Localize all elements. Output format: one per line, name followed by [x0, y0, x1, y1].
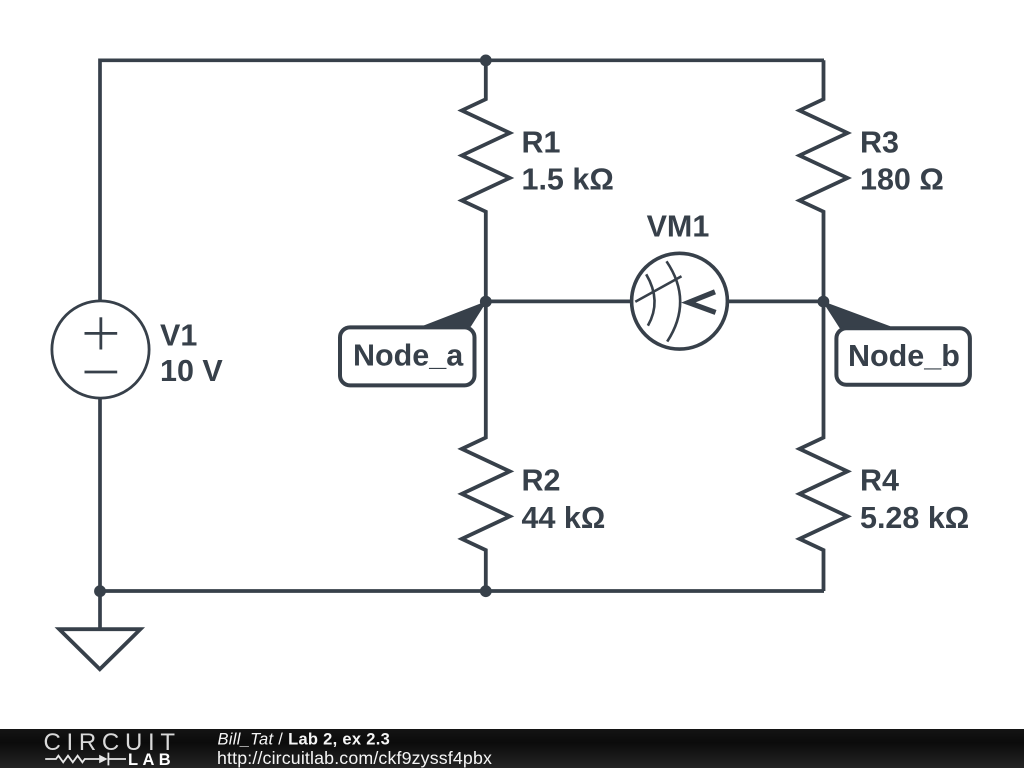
node B callout wedge — [823, 302, 890, 328]
resistor R4 — [800, 301, 848, 591]
svg-text:R3: R3 — [860, 125, 899, 159]
node B callout box — [836, 328, 970, 385]
resistor R2 — [462, 301, 510, 591]
svg-text:R4: R4 — [860, 463, 899, 497]
CircuitLab logo diode triangle — [99, 755, 107, 764]
node A callout box — [340, 327, 475, 385]
ground — [59, 629, 140, 669]
CircuitLab logo resistor-diode glyph — [45, 753, 126, 766]
junction top rail / R1 — [480, 55, 492, 67]
junction bottom rail / ground — [94, 585, 106, 597]
svg-text:5.28 kΩ: 5.28 kΩ — [860, 501, 969, 535]
svg-text:Bill_Tat / Lab 2, ex 2.3: Bill_Tat / Lab 2, ex 2.3 — [218, 730, 391, 748]
svg-text:10 V: 10 V — [160, 354, 223, 388]
wire middle right (VM1 to node b) — [728, 300, 824, 304]
wire ground stem — [98, 591, 102, 629]
svg-text:Node_a: Node_a — [353, 339, 464, 373]
wire bottom rail — [100, 589, 824, 593]
wire left rail lower (V1 bottom to bottom rail) — [98, 399, 102, 591]
wire left rail upper (top rail to V1 top) — [98, 59, 102, 302]
node A callout wedge — [420, 302, 486, 328]
voltage source V1 — [52, 301, 149, 398]
svg-text:http://circuitlab.com/ckf9zyss: http://circuitlab.com/ckf9zyssf4pbx — [217, 748, 492, 768]
svg-text:R1: R1 — [522, 125, 561, 159]
resistor R1 — [462, 60, 510, 301]
svg-text:180 Ω: 180 Ω — [860, 162, 944, 196]
svg-text:R2: R2 — [522, 463, 561, 497]
resistor R3 — [800, 60, 848, 301]
wire middle left (node a to VM1) — [486, 300, 631, 304]
svg-text:1.5 kΩ: 1.5 kΩ — [522, 162, 614, 196]
wire top rail — [100, 58, 824, 62]
junction bottom rail / R2 — [480, 585, 492, 597]
footer bar — [0, 729, 1024, 768]
junction node b — [818, 296, 830, 308]
svg-text:V1: V1 — [160, 319, 197, 353]
svg-text:LAB: LAB — [128, 751, 175, 768]
svg-text:44 kΩ: 44 kΩ — [522, 501, 606, 535]
svg-text:Node_b: Node_b — [848, 339, 960, 373]
voltmeter VM1 — [632, 253, 728, 349]
svg-text:VM1: VM1 — [647, 210, 710, 244]
junction node a — [480, 296, 492, 308]
